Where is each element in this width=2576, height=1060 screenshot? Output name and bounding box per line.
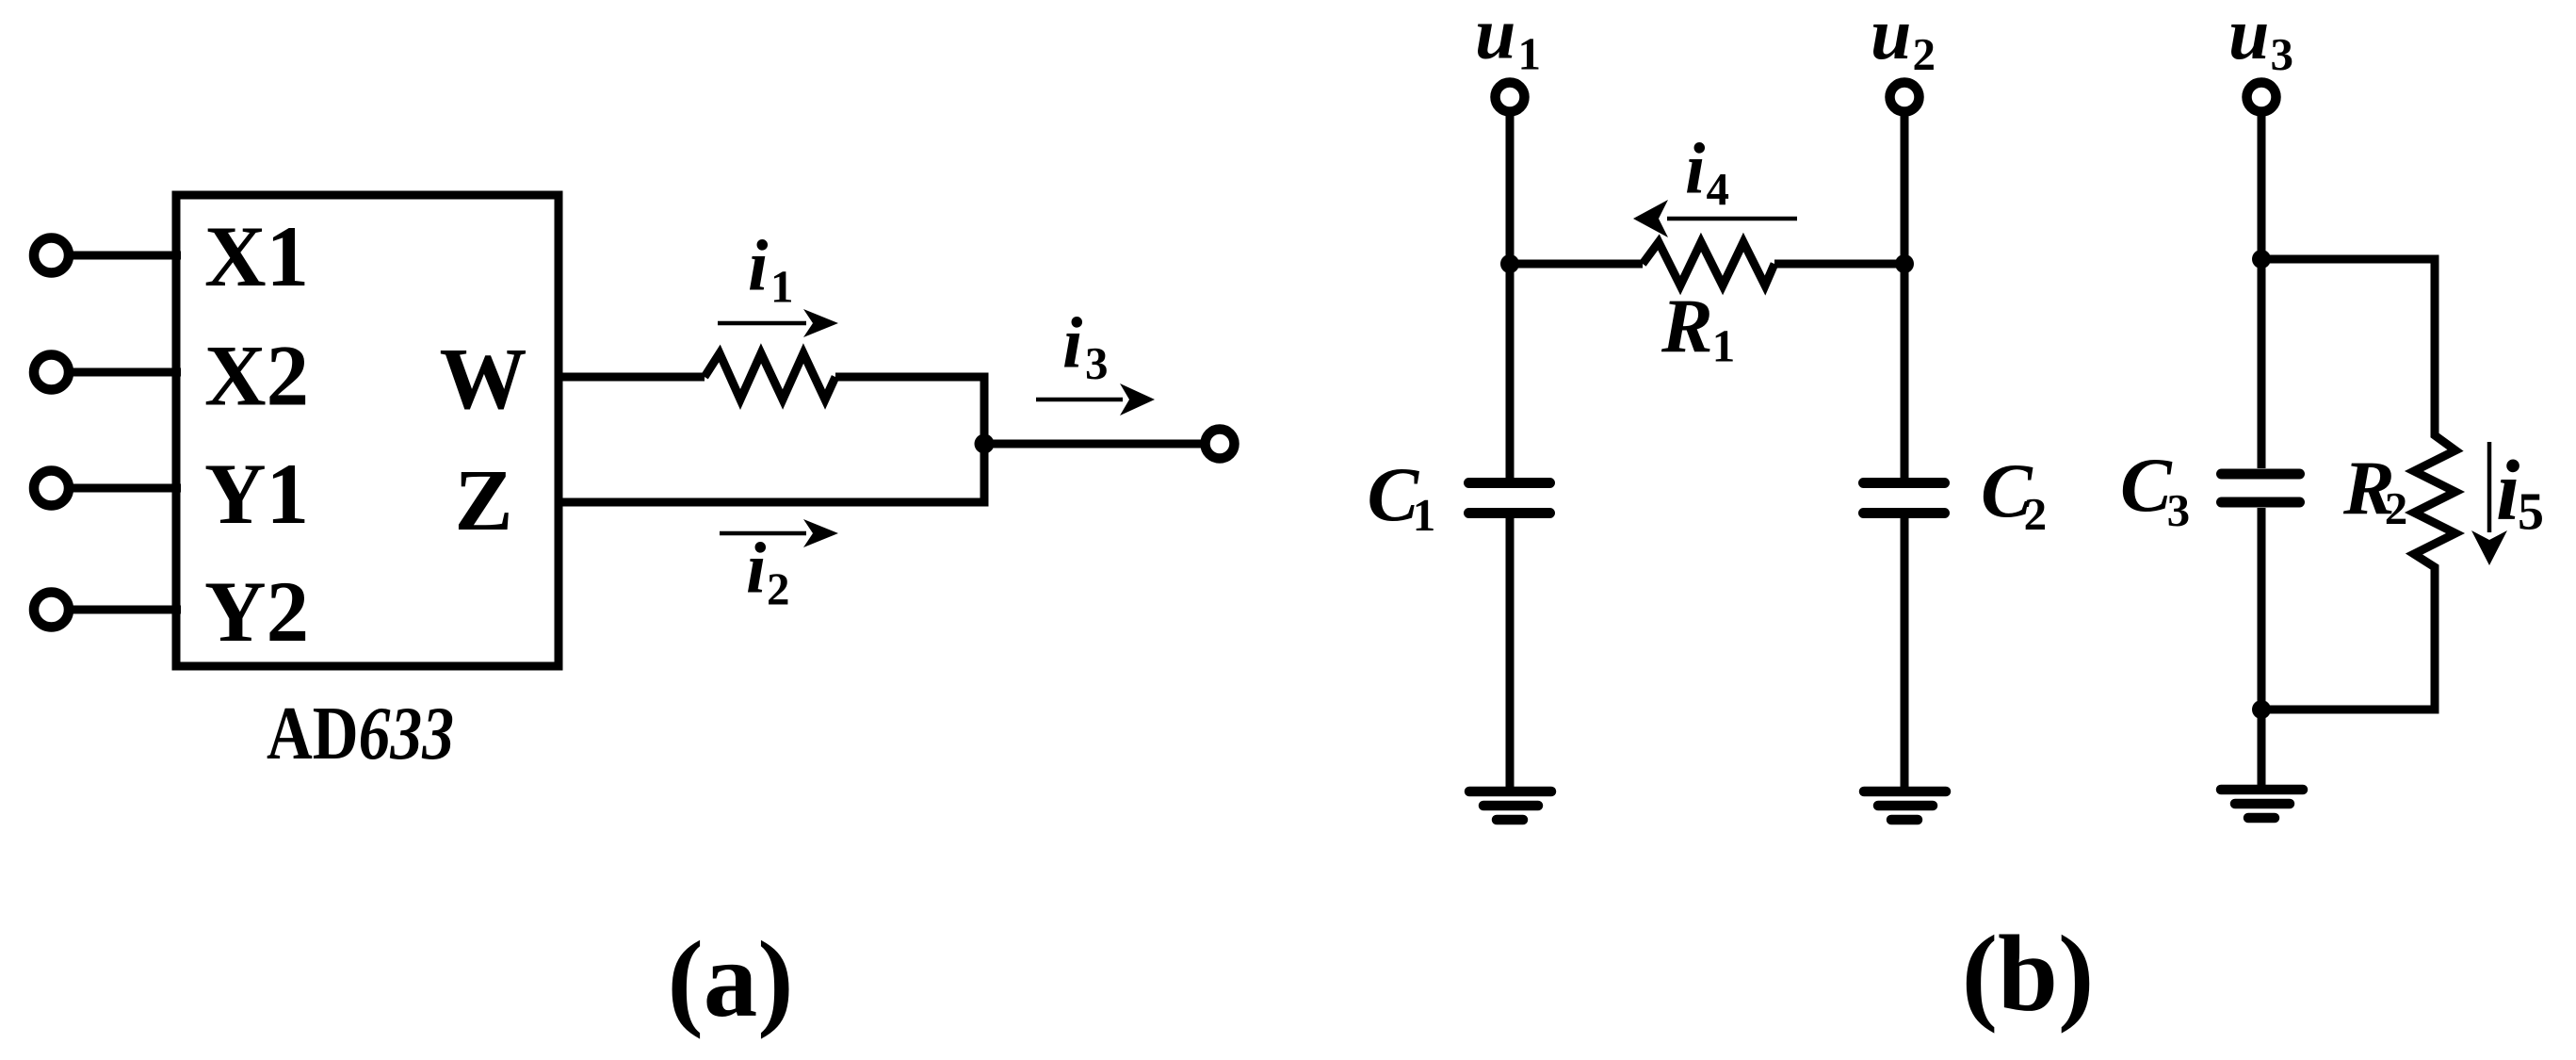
- svg-text:C: C: [2120, 442, 2173, 528]
- svg-text:AD633: AD633: [267, 693, 454, 775]
- svg-text:X2: X2: [204, 328, 309, 424]
- svg-text:4: 4: [1707, 163, 1730, 215]
- svg-text:3: 3: [2167, 484, 2191, 536]
- svg-text:W: W: [440, 331, 527, 428]
- svg-text:i: i: [746, 528, 767, 609]
- svg-text:i: i: [748, 225, 769, 306]
- svg-text:X1: X1: [204, 208, 309, 304]
- svg-text:3: 3: [1085, 337, 1109, 389]
- svg-text:2: 2: [767, 563, 790, 615]
- svg-text:i: i: [1062, 302, 1083, 383]
- svg-text:(a): (a): [667, 920, 793, 1039]
- svg-text:u: u: [2228, 0, 2269, 74]
- svg-text:u: u: [1475, 0, 1515, 74]
- svg-text:2: 2: [1913, 28, 1936, 80]
- svg-text:2: 2: [2385, 482, 2408, 534]
- svg-text:3: 3: [2271, 28, 2294, 80]
- svg-text:R: R: [1661, 283, 1713, 368]
- svg-text:5: 5: [2518, 483, 2544, 542]
- svg-text:2: 2: [2024, 488, 2048, 540]
- svg-text:Z: Z: [455, 452, 513, 549]
- svg-text:i: i: [2496, 443, 2519, 538]
- svg-text:u: u: [1871, 0, 1911, 74]
- svg-text:(b): (b): [1962, 914, 2095, 1034]
- svg-text:i: i: [1685, 128, 1706, 209]
- svg-text:1: 1: [770, 261, 794, 313]
- svg-text:Y2: Y2: [204, 563, 309, 660]
- svg-text:Y1: Y1: [204, 446, 309, 542]
- svg-text:1: 1: [1413, 489, 1436, 541]
- svg-text:1: 1: [1712, 320, 1736, 372]
- svg-text:1: 1: [1518, 28, 1542, 80]
